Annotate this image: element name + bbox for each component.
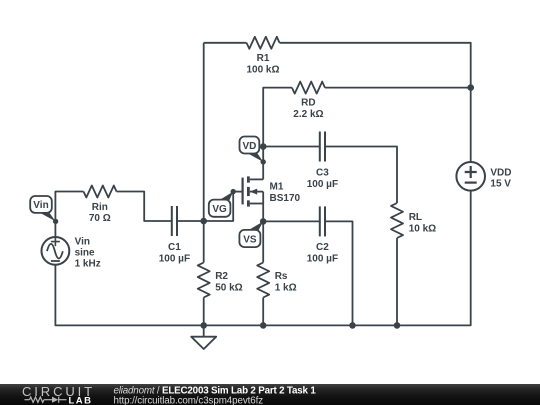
wire: source node to C2	[263, 220, 320, 222]
node: ground junction dot	[200, 322, 207, 329]
wire: R2 bottom lead	[203, 298, 205, 326]
svg-text:C3: C3	[316, 168, 329, 179]
ground	[191, 325, 216, 349]
node: VS junction dot	[260, 218, 267, 225]
svg-text:Rs: Rs	[275, 271, 288, 282]
svg-text:Rin: Rin	[92, 202, 108, 213]
wire: RD left lead and down to VD node	[263, 88, 292, 147]
svg-text:2.2 kΩ: 2.2 kΩ	[293, 109, 323, 120]
node: VG anchor dot	[231, 189, 236, 194]
footer bar	[0, 384, 540, 405]
svg-text:sine: sine	[75, 248, 95, 259]
label RL value	[409, 212, 436, 234]
resistor R1	[247, 37, 280, 49]
label Rin value	[89, 202, 111, 224]
node: Rs bottom junction dot	[260, 322, 267, 329]
svg-text:C2: C2	[316, 242, 329, 253]
node: C2 bottom junction dot	[349, 322, 356, 329]
node label VS flag	[239, 221, 263, 247]
node: VD junction dot	[260, 143, 267, 150]
wire: Vin source top lead up and right to Rin	[55, 192, 83, 237]
wire: drain vertical	[262, 147, 264, 180]
svg-text:LAB: LAB	[69, 396, 93, 405]
wire: Rs bottom lead	[262, 298, 264, 326]
wire: C3 to RL top	[325, 147, 397, 204]
svg-text:100 µF: 100 µF	[159, 254, 190, 265]
svg-text:RD: RD	[301, 97, 315, 108]
label VG flag text	[212, 204, 227, 215]
wire: gate node L to gate dot	[204, 192, 234, 221]
capacitor C2	[320, 206, 325, 236]
svg-text:100 µF: 100 µF	[307, 179, 338, 190]
resistor RD	[292, 82, 325, 94]
node label VD flag	[240, 137, 264, 162]
label C2 value	[307, 242, 338, 264]
label RD value	[293, 97, 323, 119]
label VDD value	[490, 167, 511, 189]
label Vin flag text	[33, 200, 48, 211]
footer CircuitLab logo	[22, 384, 95, 405]
label C3 value	[307, 168, 338, 190]
svg-text:R1: R1	[257, 53, 270, 64]
wire: VD node to C3	[263, 146, 320, 148]
wire: Rs top lead	[262, 221, 264, 262]
node label VG flag	[209, 192, 233, 217]
svg-text:C1: C1	[168, 242, 181, 253]
svg-text:VDD: VDD	[490, 167, 511, 178]
svg-text:100 kΩ: 100 kΩ	[246, 64, 279, 75]
wire: C2 right lead down to ground rail	[325, 221, 353, 325]
footer title text	[114, 386, 317, 397]
svg-text:VS: VS	[243, 234, 257, 245]
label C1 value	[159, 242, 190, 264]
resistor RL	[391, 203, 403, 238]
node: junction dot RD/VDD	[467, 84, 474, 91]
node: gate junction dot	[200, 218, 207, 225]
svg-text:BS170: BS170	[270, 193, 301, 204]
label Rs value	[275, 271, 297, 293]
svg-text:http://circuitlab.com/c3spm4pe: http://circuitlab.com/c3spm4pevt6fz	[114, 395, 264, 405]
svg-text:M1: M1	[270, 182, 284, 193]
label VD flag text	[242, 141, 256, 152]
wire: Rin to C1	[117, 192, 172, 222]
svg-text:100 µF: 100 µF	[307, 254, 338, 265]
label R2 value	[215, 271, 242, 293]
wire: RL bottom lead	[396, 238, 398, 325]
svg-text:1 kΩ: 1 kΩ	[275, 283, 297, 294]
voltage source VDD (15 V DC)	[456, 162, 485, 191]
resistor Rin	[84, 186, 117, 198]
label R1 value	[246, 53, 279, 75]
wire: RD right lead	[325, 87, 471, 89]
node label Vin flag	[30, 196, 55, 221]
wire: C1 to gate junction	[177, 220, 204, 222]
wire: R2 top lead	[203, 221, 205, 263]
node: RL bottom junction dot	[394, 322, 401, 329]
wire: R1 left branch vertical	[203, 43, 205, 221]
svg-text:15 V: 15 V	[490, 179, 511, 190]
svg-text:RL: RL	[409, 212, 422, 223]
label VS flag text	[243, 234, 257, 245]
label M1 value	[270, 182, 301, 204]
footer url text	[114, 395, 264, 405]
label Vin source value	[75, 236, 101, 269]
wire: bottom rail	[55, 191, 470, 326]
node: Vin anchor dot	[53, 219, 58, 224]
svg-text:1 kHz: 1 kHz	[75, 259, 101, 270]
svg-text:10 kΩ: 10 kΩ	[409, 223, 436, 234]
resistor R2	[198, 263, 210, 298]
svg-text:VG: VG	[212, 204, 227, 215]
svg-text:Vin: Vin	[75, 236, 90, 247]
resistor Rs	[257, 263, 269, 298]
svg-text:R2: R2	[215, 271, 228, 282]
node: VD anchor dot	[261, 159, 266, 164]
wire: top rail right segment and down to VDD	[280, 43, 471, 162]
transistor M1 (BS170 NMOS)	[233, 176, 263, 221]
svg-text:VD: VD	[242, 141, 256, 152]
capacitor C1	[172, 206, 177, 236]
voltage source Vin (sine)	[42, 237, 70, 265]
wire: top rail left segment	[204, 42, 247, 44]
svg-text:70 Ω: 70 Ω	[89, 213, 111, 224]
capacitor C3	[320, 132, 325, 162]
svg-text:Vin: Vin	[33, 200, 48, 211]
svg-text:50 kΩ: 50 kΩ	[215, 283, 242, 294]
